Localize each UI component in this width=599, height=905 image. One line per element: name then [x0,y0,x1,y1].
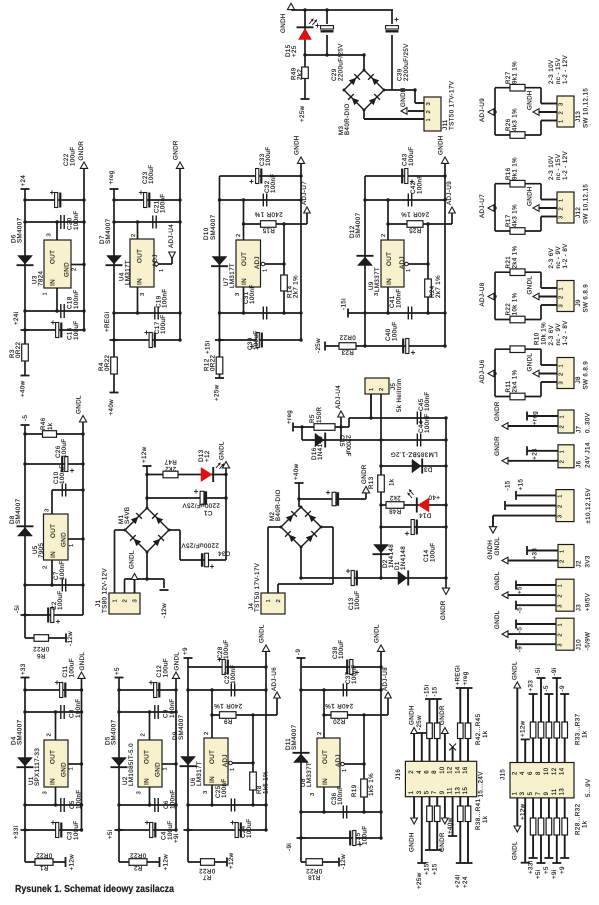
svg-text:-12w: -12w [67,631,74,646]
svg-text:240R 1%: 240R 1% [325,702,353,709]
svg-text:ADJ-U7: ADJ-U7 [301,181,308,205]
svg-text:1k: 1k [582,820,589,828]
svg-text:LM1085IT-5.0: LM1085IT-5.0 [128,743,135,786]
svg-text:-5: -5 [543,685,550,691]
svg-text:3: 3 [426,102,432,106]
svg-text:10k 1%: 10k 1% [541,322,548,345]
svg-text:11: 11 [552,788,558,795]
svg-text:+33: +33 [532,548,539,560]
svg-text:1k: 1k [389,478,396,486]
svg-text:2: 2 [72,267,78,271]
svg-text:3: 3 [133,599,139,603]
svg-text:5: 5 [528,791,534,795]
svg-text:+12w: +12w [163,854,170,871]
svg-text:GNDL: GNDL [174,652,181,671]
svg-text:2: 2 [560,425,566,429]
svg-text:100uF: 100uF [362,825,369,845]
svg-text:OUT: OUT [209,750,216,764]
svg-text:+5: +5 [543,866,550,874]
svg-text:GNDL: GNDL [374,624,381,643]
svg-text:3: 3 [203,790,209,794]
svg-text:1: 1 [113,599,119,603]
svg-text:4: 4 [417,770,423,774]
svg-text:-9: -9 [295,649,302,655]
svg-text:Rysunek 1. Schemat ideowy zasi: Rysunek 1. Schemat ideowy zasilacza [15,884,174,895]
svg-text:GNDR: GNDR [439,832,446,852]
svg-text:R42...R45: R42...R45 [475,713,482,745]
svg-text:GNDR: GNDR [173,140,180,160]
svg-text:2: 2 [123,599,129,603]
svg-text:100nF: 100nF [424,413,431,433]
svg-text:1: 1 [406,268,412,272]
svg-text:100uF: 100uF [223,639,230,659]
svg-text:13: 13 [455,786,461,794]
svg-text:+5: +5 [517,586,524,594]
svg-text:R7: R7 [202,874,211,881]
svg-text:1k5 1%: 1k5 1% [368,773,375,796]
svg-text:1: 1 [163,767,169,771]
svg-text:3: 3 [137,791,143,795]
svg-text:GNDL: GNDL [494,610,501,629]
svg-text:GNDR: GNDR [494,436,501,456]
svg-text:+15i: +15i [424,862,431,875]
svg-text:+25w: +25w [214,384,221,401]
svg-text:100nF: 100nF [270,173,277,193]
svg-text:ADJ-U7: ADJ-U7 [479,194,486,218]
svg-text:1: 1 [558,623,564,627]
svg-text:2k2: 2k2 [165,465,176,472]
svg-text:2: 2 [276,599,282,603]
svg-text:100nF: 100nF [396,288,403,308]
svg-text:+40w: +40w [447,817,454,834]
svg-text:2: 2 [559,111,565,115]
svg-text:0R22: 0R22 [130,852,147,859]
svg-text:SM4007: SM4007 [17,719,24,745]
svg-text:IN: IN [322,778,329,785]
svg-text:100nF: 100nF [59,560,66,580]
svg-text:+15i: +15i [205,341,212,354]
svg-text:+reg: +reg [462,671,469,685]
svg-text:100uF: 100uF [69,658,76,678]
svg-text:2: 2 [317,731,323,735]
svg-text:1k: 1k [582,730,589,738]
svg-text:R33...R37: R33...R37 [575,713,582,745]
svg-text:2: 2 [560,559,566,563]
svg-text:100uF: 100uF [163,658,170,678]
svg-text:0R22: 0R22 [339,333,356,340]
svg-text:3: 3 [235,292,241,296]
svg-text:2: 2 [559,295,565,299]
svg-text:+12w: +12w [228,852,235,869]
svg-text:0R22: 0R22 [210,354,217,371]
svg-text:J16: J16 [395,769,402,780]
svg-text:2200uF: 2200uF [344,435,351,457]
svg-text:3: 3 [559,381,565,385]
svg-text:100uF: 100uF [73,320,80,340]
svg-text:0R22: 0R22 [36,852,53,859]
svg-text:R6: R6 [36,652,45,659]
svg-text:15...24V: 15...24V [478,771,485,798]
svg-text:100nF: 100nF [230,664,237,684]
svg-text:-15i: -15i [424,685,431,697]
svg-text:10: 10 [440,766,446,774]
svg-text:5: 5 [425,790,431,794]
svg-text:GNDH: GNDH [280,13,287,33]
svg-text:OUT: OUT [137,249,144,263]
svg-text:100nF: 100nF [73,210,80,230]
svg-text:14: 14 [560,767,566,775]
svg-text:IN: IN [50,551,57,558]
svg-text:100uF: 100uF [246,818,253,838]
svg-text:1: 1 [426,118,432,122]
svg-text:SM4007: SM4007 [17,217,24,243]
svg-text:GNDL: GNDL [259,624,266,643]
svg-text:2-3 6V: 2-3 6V [548,324,555,345]
svg-text:8: 8 [432,770,438,774]
svg-text:R47: R47 [164,458,177,465]
svg-text:R19: R19 [351,784,358,797]
svg-text:+12w: +12w [69,854,76,871]
svg-text:2: 2 [236,233,242,237]
svg-text:-5i: -5i [535,667,542,675]
svg-text:100nF: 100nF [169,698,176,718]
svg-text:0R22: 0R22 [33,645,50,652]
svg-text:12: 12 [552,767,558,775]
svg-text:GNDL: GNDL [512,841,519,860]
svg-text:3: 3 [558,514,564,518]
svg-text:J12: J12 [575,207,582,218]
svg-text:J10: J10 [576,639,583,650]
svg-text:3: 3 [310,792,316,796]
svg-text:3: 3 [559,102,565,106]
svg-text:SM4007: SM4007 [111,719,118,745]
svg-text:R1: R1 [39,864,48,871]
svg-text:10: 10 [544,767,550,775]
svg-text:100nF: 100nF [249,284,256,304]
svg-text:R13: R13 [368,476,375,489]
svg-text:+5i: +5i [107,829,114,839]
svg-text:D3: D3 [423,466,432,473]
svg-text:2200uF/25V: 2200uF/25V [403,43,410,81]
svg-text:2-3 10V: 2-3 10V [548,155,555,180]
svg-text:SM4007: SM4007 [355,212,362,238]
svg-text:R48: R48 [389,508,402,515]
svg-text:2: 2 [426,110,432,114]
svg-text:+9i: +9i [551,869,558,879]
svg-text:TST50 17V-17V: TST50 17V-17V [254,562,261,612]
svg-text:+15: +15 [431,863,438,875]
svg-text:S4VB: S4VB [124,507,131,524]
svg-text:GNDH: GNDH [408,705,415,725]
svg-text:GNDH: GNDH [408,832,415,852]
svg-text:1: 1 [559,364,565,368]
svg-text:100nF: 100nF [337,785,344,805]
svg-text:1: 1 [560,549,566,553]
svg-text:1: 1 [263,268,269,272]
svg-text:GNDH: GNDH [487,540,494,560]
svg-text:SM4007: SM4007 [15,498,22,524]
svg-text:1N4148: 1N4148 [388,544,395,568]
svg-text:100nF: 100nF [76,789,83,809]
svg-text:+9/5V: +9/5V [585,592,592,611]
svg-text:+reg: +reg [286,410,293,424]
svg-text:2: 2 [560,460,566,464]
svg-text:2k7 1%: 2k7 1% [293,275,300,298]
svg-text:ADJ-U9: ADJ-U9 [446,181,453,205]
svg-text:100nF: 100nF [59,464,66,484]
svg-text:J9: J9 [575,299,582,306]
svg-text:100uF: 100uF [338,639,345,659]
svg-text:-9i: -9i [551,667,558,675]
svg-text:1k: 1k [482,815,489,823]
svg-text:4k3 1%: 4k3 1% [512,204,519,227]
svg-text:OUT: OUT [386,252,393,266]
svg-text:100nF: 100nF [417,174,424,194]
svg-text:7: 7 [432,790,438,794]
svg-text:6: 6 [425,770,431,774]
svg-text:2k4 1%: 2k4 1% [512,245,519,268]
svg-text:2k2: 2k2 [389,494,400,501]
svg-text:+24: +24 [532,448,539,460]
svg-text:4k3 1%: 4k3 1% [512,108,519,131]
svg-text:3: 3 [559,304,565,308]
svg-text:-9: -9 [559,685,566,691]
svg-text:D10: D10 [203,227,210,240]
svg-text:+25: +25 [291,45,298,57]
svg-text:2: 2 [379,387,385,391]
svg-text:1-2 - 8V: 1-2 - 8V [562,320,569,346]
svg-text:IN: IN [209,776,216,783]
svg-text:2: 2 [512,771,518,775]
svg-text:3V3: 3V3 [585,555,592,567]
svg-text:1k: 1k [47,422,54,430]
svg-text:-5: -5 [517,607,524,613]
svg-text:3: 3 [47,233,53,237]
svg-text:SPX1117-33: SPX1117-33 [34,748,41,786]
svg-text:-15i: -15i [341,298,348,310]
svg-text:J8: J8 [575,376,582,383]
svg-text:100nF: 100nF [221,778,228,798]
svg-text:100uF: 100uF [160,314,167,334]
svg-text:100uF: 100uF [57,590,64,610]
svg-text:3: 3 [43,791,49,795]
svg-text:0R22: 0R22 [306,867,323,874]
svg-text:3: 3 [417,790,423,794]
svg-text:1: 1 [369,387,375,391]
svg-text:2: 2 [47,733,53,737]
svg-text:1N4148: 1N4148 [317,436,324,460]
svg-text:R28...R32: R28...R32 [575,803,582,835]
svg-text:-5: -5 [517,627,524,633]
svg-text:100uF: 100uF [61,438,68,458]
svg-text:5k Helitrim: 5k Helitrim [396,378,403,412]
svg-text:GNDL: GNDL [512,661,519,680]
svg-text:LM317T: LM317T [229,263,236,288]
svg-text:SW 10,12,15: SW 10,12,15 [583,184,590,224]
svg-text:GNDL: GNDL [129,550,136,569]
svg-text:ADJ-U8: ADJ-U8 [382,667,389,691]
svg-text:2k2: 2k2 [297,69,304,80]
svg-text:1: 1 [559,119,565,123]
svg-text:GNDL: GNDL [494,537,501,556]
svg-text:2: 2 [559,207,565,211]
svg-text:100uF: 100uF [265,146,272,166]
svg-text:GNDR: GNDR [494,401,501,421]
svg-text:R23: R23 [341,349,354,356]
svg-text:+12w: +12w [141,446,148,463]
svg-text:GNDH: GNDH [527,90,534,110]
svg-text:C34: C34 [218,550,231,557]
svg-text:16: 16 [463,766,469,774]
svg-text:7824: 7824 [38,270,45,286]
svg-text:+33: +33 [20,663,27,675]
svg-text:24V J14: 24V J14 [585,442,592,468]
svg-text:1-2 - 8V: 1-2 - 8V [562,243,569,269]
svg-text:3: 3 [140,292,146,296]
svg-text:3: 3 [45,508,51,512]
svg-text:-5/9W: -5/9W [585,632,592,651]
svg-text:LM337T: LM337T [306,762,313,787]
svg-text:±10,12,15V: ±10,12,15V [585,488,592,524]
svg-text:+40w: +40w [108,399,115,416]
svg-text:GNDL: GNDL [527,353,534,372]
svg-text:R25: R25 [409,226,422,233]
svg-text:2: 2 [558,633,564,637]
svg-text:+REGi: +REGi [104,312,111,332]
svg-text:150R: 150R [316,406,323,423]
svg-text:1: 1 [409,790,415,794]
svg-text:IN: IN [144,778,151,785]
svg-text:R10: R10 [534,332,541,345]
svg-text:14: 14 [455,766,461,774]
svg-text:2-3 10V: 2-3 10V [548,59,555,84]
svg-text:+5i: +5i [535,869,542,879]
svg-text:240R 1%: 240R 1% [214,702,242,709]
svg-text:1: 1 [230,767,236,771]
svg-text:ADJ-U6: ADJ-U6 [271,667,278,691]
svg-text:-5i: -5i [14,605,21,613]
svg-text:1: 1 [558,584,564,588]
svg-text:R20: R20 [333,717,346,724]
svg-text:2: 2 [141,733,147,737]
svg-text:100uF: 100uF [392,321,399,341]
svg-text:100uF: 100uF [70,146,77,166]
svg-text:D14: D14 [419,512,432,519]
svg-text:+15: +15 [518,479,525,491]
svg-text:R9: R9 [223,717,232,724]
svg-text:J13: J13 [575,111,582,122]
svg-text:2: 2 [558,594,564,598]
svg-text:240R 1%: 240R 1% [254,211,282,218]
svg-text:3: 3 [558,604,564,608]
svg-text:+9i: +9i [173,833,180,843]
svg-text:+40: +40 [428,494,440,501]
svg-text:ADJ: ADJ [254,256,261,269]
svg-text:LM317T: LM317T [196,761,203,786]
svg-text:2: 2 [381,233,387,237]
svg-text:-15: -15 [505,480,512,490]
svg-text:+12w: +12w [519,720,526,737]
svg-text:9k1 1%: 9k1 1% [512,61,519,84]
svg-text:R5: R5 [309,414,316,423]
svg-text:LM317T: LM317T [125,260,132,285]
svg-text:ADJ: ADJ [222,754,229,767]
svg-text:11: 11 [448,787,454,794]
svg-text:GNDH: GNDH [527,186,534,206]
svg-text:100uF: 100uF [253,330,260,350]
svg-text:100uF: 100uF [73,820,80,840]
svg-text:4: 4 [520,771,526,775]
svg-text:2200uF/25V: 2200uF/25V [182,502,220,509]
svg-text:+25w: +25w [299,105,306,122]
svg-text:nc - 15V: nc - 15V [555,153,562,180]
svg-text:GND: GND [61,532,68,547]
svg-text:+40w: +40w [293,463,300,480]
svg-text:J2: J2 [576,560,583,567]
svg-text:C1: C1 [203,509,212,516]
svg-text:OUT: OUT [144,750,151,764]
svg-text:ADJ-U4: ADJ-U4 [168,224,175,248]
svg-text:SM4007: SM4007 [291,724,298,750]
svg-text:1: 1 [512,791,518,795]
svg-text:1: 1 [69,543,75,547]
svg-text:7905: 7905 [38,542,45,558]
svg-text:9k1 1%: 9k1 1% [512,157,519,180]
svg-text:15: 15 [463,786,469,794]
svg-text:IN: IN [50,279,57,286]
svg-text:240R 1%: 240R 1% [401,211,429,218]
svg-text:+reg: +reg [532,411,539,425]
svg-text:GNDR: GNDR [78,141,85,161]
svg-text:7: 7 [536,791,542,795]
svg-text:ADJ-U6: ADJ-U6 [479,359,486,383]
svg-text:LM385BZ-1.2G: LM385BZ-1.2G [390,451,437,458]
svg-text:R46: R46 [40,417,47,430]
svg-text:SW 6.8.9: SW 6.8.9 [583,361,590,390]
svg-text:GNDR: GNDR [439,705,446,725]
svg-text:SM4007: SM4007 [178,714,185,740]
svg-text:2k4 1%: 2k4 1% [512,369,519,392]
svg-text:100nF: 100nF [351,664,358,684]
svg-text:R2: R2 [133,864,142,871]
svg-text:+25w: +25w [416,872,423,889]
svg-text:100uF: 100uF [148,164,155,184]
svg-text:J7: J7 [576,426,583,433]
svg-text:GNDH: GNDH [294,135,301,155]
svg-text:2: 2 [204,731,210,735]
svg-text:100nF: 100nF [162,288,169,308]
svg-text:1N4148: 1N4148 [400,546,407,570]
svg-text:GND: GND [155,762,162,777]
svg-text:+24: +24 [462,876,469,888]
svg-text:+33i: +33i [527,861,534,874]
svg-text:nc - 9V: nc - 9V [555,323,562,346]
svg-text:1: 1 [558,494,564,498]
svg-text:R18: R18 [308,874,321,881]
svg-text:+24: +24 [20,175,27,187]
svg-text:12: 12 [448,766,454,774]
svg-text:1-2 - 12V: 1-2 - 12V [562,150,569,180]
svg-text:ADJ-U9: ADJ-U9 [479,98,486,122]
svg-text:1: 1 [159,268,165,272]
svg-text:1: 1 [559,287,565,291]
svg-text:+33: +33 [527,680,534,692]
svg-text:GNDL: GNDL [527,276,534,295]
svg-text:-15: -15 [431,686,438,696]
svg-text:-9i: -9i [286,843,293,851]
svg-text:OUT: OUT [50,750,57,764]
svg-text:GNDL: GNDL [76,395,83,414]
